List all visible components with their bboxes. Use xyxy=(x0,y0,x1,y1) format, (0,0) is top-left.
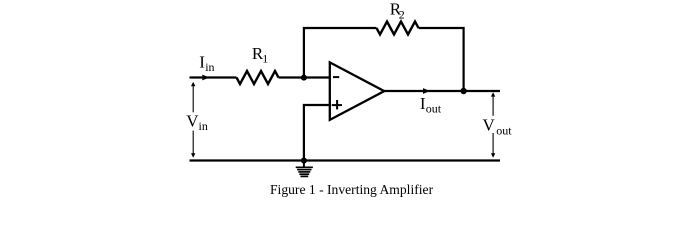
ground xyxy=(296,161,313,176)
svg-text:1: 1 xyxy=(262,51,268,65)
wire: bottom ground rail xyxy=(190,159,501,161)
node B: junction dot at output xyxy=(460,88,466,94)
svg-text:out: out xyxy=(496,123,512,137)
wire: feedback left vertical + top run to R2 xyxy=(304,28,377,78)
node C: junction dot at ground rail xyxy=(301,157,307,163)
svg-text:Figure 1 - Inverting Amplifier: Figure 1 - Inverting Amplifier xyxy=(270,182,434,197)
svg-text:V: V xyxy=(483,116,496,135)
svg-text:V: V xyxy=(186,111,199,130)
wire: non-inverting input run + vertical down to ground rail xyxy=(304,105,331,161)
label V_out xyxy=(483,116,513,138)
label R1 xyxy=(252,44,268,66)
wire: output from op-amp apex to right end xyxy=(384,90,500,92)
label R2 xyxy=(390,0,405,21)
svg-text:2: 2 xyxy=(399,7,405,21)
resistor R2 zigzag xyxy=(377,22,419,35)
arrow: I_in current arrow on input wire xyxy=(202,75,209,81)
arrow: V_out measurement double arrow xyxy=(491,92,495,157)
svg-text:out: out xyxy=(426,101,442,115)
wire: input left segment xyxy=(190,76,237,78)
svg-text:in: in xyxy=(199,119,208,133)
label V_in xyxy=(186,111,208,133)
svg-text:in: in xyxy=(205,60,214,74)
node A: junction dot at inverting input xyxy=(301,75,307,81)
label I_in xyxy=(199,53,214,74)
op-amp U1 triangle xyxy=(330,62,384,120)
op-amp plus sign xyxy=(332,104,342,106)
op-amp minus sign xyxy=(333,76,339,78)
label I_out xyxy=(420,94,442,116)
wire: top run right of R2 + right vertical down to output node xyxy=(419,28,464,91)
arrow: V_in measurement double arrow xyxy=(191,82,195,158)
resistor R1 zigzag xyxy=(237,71,279,84)
arrow: I_out current arrow on output wire xyxy=(423,88,430,94)
wire: input segment from R1 to op-amp inverting input xyxy=(279,76,331,78)
